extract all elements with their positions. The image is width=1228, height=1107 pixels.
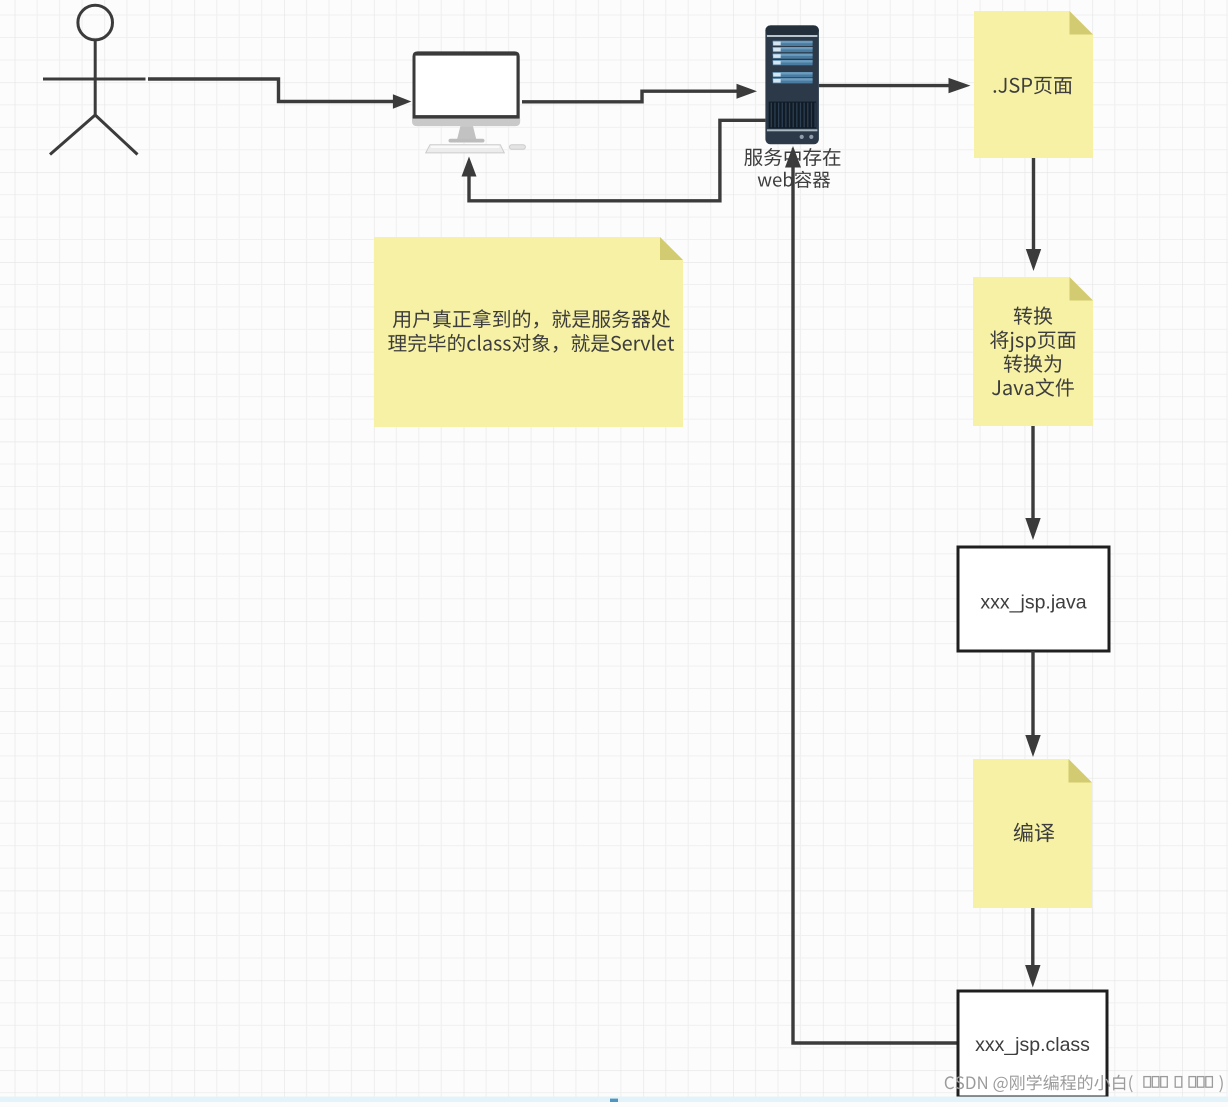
svg-text:xxx_jsp.class: xxx_jsp.class [975,1034,1090,1056]
note 转换/将jsp页面/转换为/Java文件 [973,277,1093,426]
wire 编译 note to xxx_jsp.class box [1031,908,1034,965]
note JSP页面 [974,11,1093,158]
box xxx_jsp.java [958,547,1109,651]
arrowhead into 编译 note [1025,735,1040,757]
arrowhead into xxx_jsp.class box [1025,965,1040,988]
wire monitor to server [522,91,737,102]
watermark CSDN [945,1075,1223,1093]
arrowhead up into keyboard [462,157,477,177]
wire JSP note to 转换 note [1032,158,1035,250]
arrowhead into monitor [393,94,412,109]
wire xxx_jsp.java box to 编译 note [1031,651,1034,735]
wire xxx_jsp.class back up to server [793,167,958,1044]
box xxx_jsp.class [958,991,1107,1097]
arrowhead into xxx_jsp.java box [1025,518,1040,540]
arrowhead into 转换 note [1026,249,1041,271]
arrowhead into JSP note [949,78,971,93]
wire 转换 note to xxx_jsp.java box [1031,426,1034,518]
actor (stick figure user) [43,5,146,154]
arrowhead into server [737,84,758,99]
note 用户真正拿到的…Servlet [374,237,683,427]
scrollbar marker [610,1099,618,1102]
wire actor to monitor [148,79,395,102]
arrowhead up into server bottom [785,146,801,168]
label 服务中存在 web容器 [744,148,840,188]
note 编译 [973,759,1092,908]
server tower (web container) [765,25,819,144]
wire server back to monitor [469,120,765,201]
monitor (PC) [412,51,525,152]
wire server to JSP note [819,84,950,87]
bottom scrollbar strip [0,1097,1228,1103]
svg-text:xxx_jsp.java: xxx_jsp.java [980,592,1086,614]
